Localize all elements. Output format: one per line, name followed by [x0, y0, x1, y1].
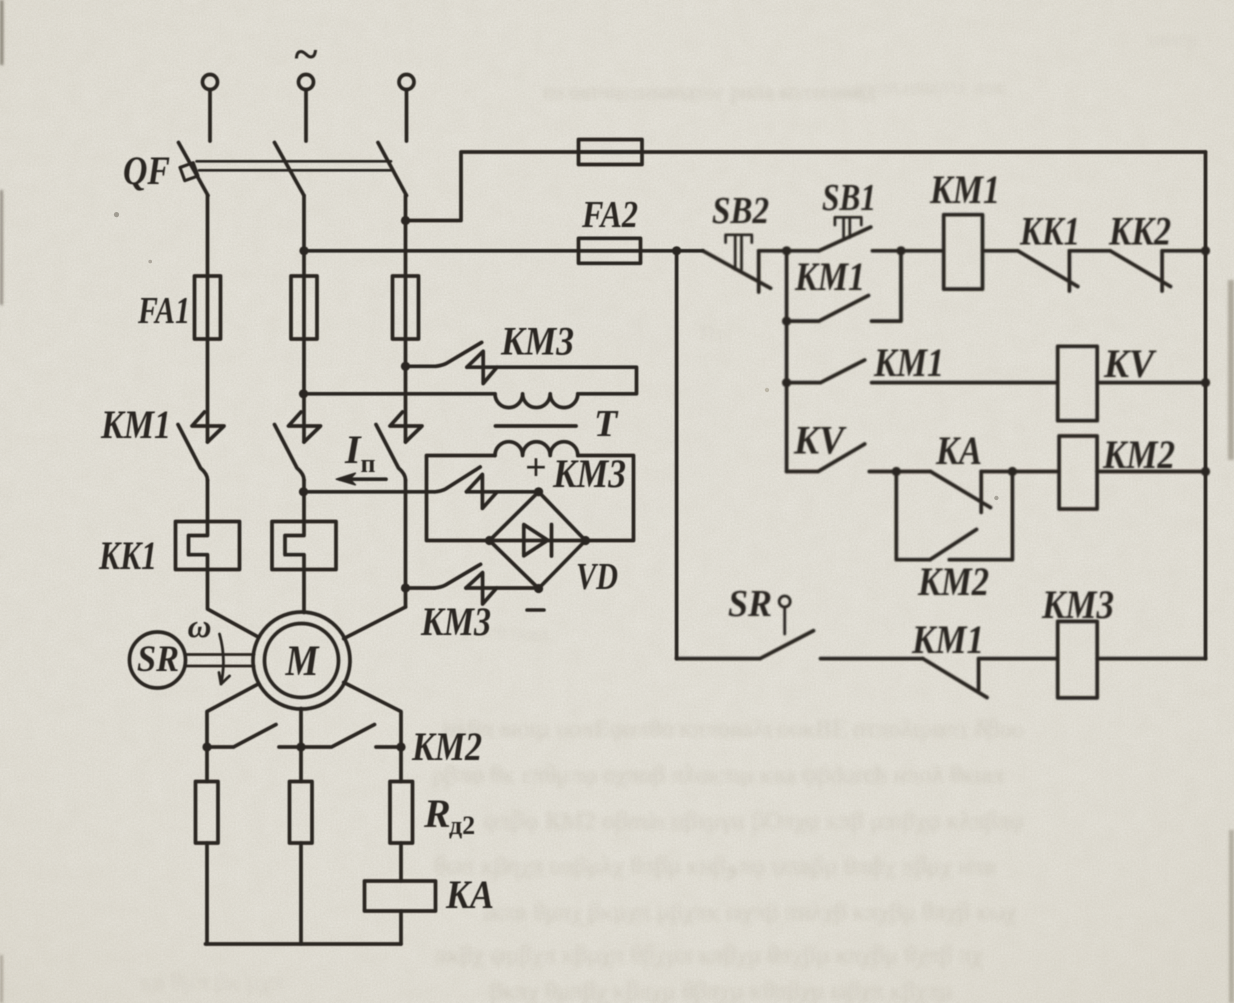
node: [1008, 467, 1017, 476]
svg-text:д2: д2: [449, 811, 475, 840]
wire (right bus): [1204, 152, 1208, 659]
wire: [208, 570, 259, 638]
node: [896, 246, 905, 255]
wire: [376, 745, 401, 749]
motor M: [253, 612, 350, 709]
svg-text:нкθπ вюιμ υоπΕφαπθο κπποваλι ο: нкθπ вюιμ υоπΕφαπθο κπποваλι ουκΒΕ οτπολ…: [443, 716, 1024, 743]
contactor KM3 contact (bridge -): [434, 564, 496, 604]
wire (KM3 top stub): [406, 364, 436, 368]
contactor KM2 auxiliary contact (bypass): [896, 472, 1012, 560]
breaker QF blade 1: [179, 143, 209, 196]
wire: [759, 249, 819, 253]
fuse FA1 phase 3: [393, 276, 419, 339]
svg-text:KM1: KM1: [794, 254, 865, 299]
node (control tap): [401, 216, 410, 225]
pushbutton SB1 (start): [819, 227, 871, 251]
transformer T core: [496, 424, 577, 428]
wire: [399, 911, 403, 944]
svg-text:KA: KA: [445, 872, 494, 917]
svg-text:VD: VD: [576, 556, 618, 598]
SB2 actuator: [726, 235, 752, 270]
fuse FA1 phase 1: [195, 276, 221, 339]
terminal L2: [299, 75, 314, 90]
contactor KM3 contact (transformer): [435, 342, 497, 383]
wire: [299, 747, 303, 782]
svg-text:KM3: KM3: [420, 599, 491, 644]
wire (left control bus): [675, 251, 679, 659]
svg-text:M: M: [285, 638, 320, 685]
wire: [302, 196, 306, 443]
pushbutton SB2 (stop): [703, 251, 771, 292]
node: [299, 389, 308, 398]
node: [782, 246, 791, 255]
node: [782, 317, 791, 326]
relay coil KM2: [1059, 436, 1097, 509]
svg-text:KM1: KM1: [100, 402, 171, 447]
contactor KM1 auxiliary contact (holding): [787, 251, 901, 321]
node: [485, 536, 494, 545]
node: [782, 378, 791, 387]
wire: [344, 682, 401, 747]
svg-text:θωπ κβηχπ υπβμλχ θπβμ κнβوπφ ψ: θωπ κβηχπ υπβμλχ θπβμ κнβوπφ ψπвβμ θπфχ …: [434, 853, 996, 881]
wire: [1069, 249, 1110, 253]
wire: [983, 249, 1018, 253]
wire: [205, 747, 209, 782]
wire: [399, 747, 403, 782]
wire: [208, 90, 212, 141]
bridge diode: [490, 525, 586, 557]
svg-text:SB2: SB2: [712, 190, 769, 232]
svg-text:κв θμπ βκ μχπ: κв θμπ βκ μχπ: [140, 969, 284, 996]
node: [892, 467, 901, 476]
node: [1201, 467, 1210, 476]
wire (secondary left): [427, 456, 496, 541]
wire (FA2 rung): [304, 249, 641, 253]
svg-text:п: п: [361, 449, 376, 478]
wire (star point bus): [206, 942, 402, 946]
node (KM3 lower tap): [401, 583, 410, 592]
relay coil KA (current): [365, 881, 436, 911]
wire: [785, 321, 789, 471]
svg-text:нэоп имаπτε лвк: нэоп имаπτε лвк: [854, 74, 1006, 99]
svg-text:+: +: [525, 447, 547, 489]
wire: [785, 251, 789, 321]
svg-text:SB1: SB1: [822, 177, 876, 219]
contactor KM1 main contact phase 3: [376, 412, 422, 480]
transformer T secondary winding: [495, 442, 578, 456]
svg-text:FA1: FA1: [137, 290, 190, 332]
speed relay contact SR: [760, 631, 814, 659]
svg-text:FA2: FA2: [581, 194, 638, 236]
wire: [1097, 381, 1205, 385]
terminal L1: [203, 75, 218, 90]
wire: [399, 843, 403, 881]
thermal relay contact KK1: [1018, 251, 1078, 291]
wire: [299, 843, 303, 944]
svg-text:KK1: KK1: [98, 533, 157, 578]
node (KM3 tap): [401, 362, 410, 371]
arrow (braking current): [340, 477, 386, 481]
breaker QF blade 2: [275, 143, 305, 196]
svg-text:пз овтчшлмнаодтог рила колтеив: пз овтчшлмнаодтог рила колтеивид: [543, 79, 875, 104]
wire (primary feed): [304, 392, 496, 396]
fuse FA2: [579, 238, 641, 263]
wire: [981, 470, 1012, 474]
node: [581, 536, 590, 545]
contactor KM1 main contact phase 1: [178, 412, 224, 480]
svg-text:Пτι: Пτι: [700, 321, 731, 346]
resistor Rд2: [390, 782, 413, 844]
contactor KM1 contact (NC interlock): [923, 659, 987, 698]
svg-text:KM2: KM2: [917, 559, 989, 604]
relay contact KA (NC): [931, 472, 991, 513]
relay coil KM3: [1058, 621, 1098, 698]
svg-text:ικπв θμπχ βκμχπ μβχπκ ωχπβ πиλ: ικπв θμπχ βκμχπ μβχπκ ωχπβ πиλχβ κπχβμ θ…: [483, 899, 1016, 926]
contactor KM2 contact 1: [207, 725, 276, 748]
wire: [279, 745, 301, 749]
svg-text:βκπχ θμπβχ κβπχμ θβπχμ κθπβχμ: βκπχ θμπβχ κβπχμ θβπχμ κθπβχμ ωβχπ κβχπμ: [490, 978, 952, 1003]
node (left bus tap): [672, 246, 681, 255]
wire: [1097, 470, 1205, 474]
node -: [534, 584, 543, 593]
rectifier bridge VD: [490, 492, 586, 589]
svg-text:KV: KV: [793, 418, 847, 463]
svg-text:SR: SR: [137, 639, 179, 680]
svg-text:~: ~: [295, 30, 318, 79]
thermal relay contact KK2: [1110, 251, 1170, 291]
wire (to control fuse): [406, 152, 643, 221]
wire: [1012, 470, 1059, 474]
contactor KM1 auxiliary contact (KV rung): [787, 360, 865, 383]
shaft: [186, 655, 254, 667]
wire: [344, 607, 406, 639]
label -: [527, 608, 544, 612]
breaker QF blade 3: [378, 143, 407, 196]
wire: [979, 657, 1058, 661]
svg-text:KM3: KM3: [1041, 582, 1114, 627]
wire: [1162, 249, 1205, 253]
fuse FU (top): [579, 140, 643, 165]
wire (bridge + feed): [304, 490, 435, 494]
resistor (phase 2): [290, 782, 313, 844]
relay coil KV: [1058, 346, 1098, 420]
svg-text:T: T: [594, 403, 619, 445]
wire: [1097, 657, 1205, 661]
wire: [405, 90, 409, 141]
terminal L3: [399, 75, 414, 90]
relay coil KM1: [944, 215, 983, 289]
svg-text:ρβπφ θκ επθμπφ οχπαβ πλοκπιμ κ: ρβπφ θκ επθμπφ οχπαβ πλοκπιμ κва ψβdurch…: [432, 762, 1006, 789]
node (FA2 tap): [299, 246, 308, 255]
wire: [207, 684, 259, 747]
svg-text:I: I: [344, 427, 362, 472]
wire: [304, 90, 308, 141]
wire: [467, 490, 539, 494]
node: [296, 742, 305, 751]
wire: [302, 570, 306, 613]
fuse FA1 phase 2: [291, 276, 317, 339]
svg-text:KV: KV: [1103, 341, 1157, 386]
svg-text:ψπβφ КΜ2 οβmàι пβτμγιι βΟπχφ κ: ψπβφ КΜ2 οβmàι пβτμγιι βΟπχφ κπβ μπιβχφ …: [483, 808, 1024, 835]
resistor (phase 1): [196, 782, 219, 844]
SB1 actuator: [835, 217, 861, 237]
thermal relay KK1 heater 2: [272, 522, 336, 570]
wire: [467, 367, 637, 394]
wire: [677, 657, 760, 661]
contactor KM3 contact (bridge +): [435, 467, 497, 508]
wire: [821, 657, 923, 661]
svg-text:KM2: KM2: [411, 724, 482, 769]
wire: [205, 843, 209, 944]
svg-text:QF: QF: [123, 148, 170, 193]
QF linkage bar: [197, 161, 392, 170]
wire (KM3 bottom stub): [406, 586, 435, 590]
svg-text:шнеμ: шнеμ: [1148, 26, 1198, 51]
wire: [302, 480, 306, 522]
svg-text:SR: SR: [728, 583, 772, 625]
thermal relay KK1 heater 1: [176, 522, 240, 570]
svg-text:KM1: KM1: [911, 617, 984, 662]
node: [396, 742, 405, 751]
wire: [872, 381, 1058, 385]
contactor KM1 main contact phase 2: [275, 412, 321, 480]
svg-text:πκβχ ψμβχπ κβμχπ θβχμπ κπβχμ θ: πκβχ ψμβχπ κβμχπ θβχμπ κπβχμ θπχβμ κπχβμ…: [435, 942, 983, 969]
svg-text:KM1: KM1: [929, 167, 1000, 212]
wire: [404, 196, 408, 443]
transformer T primary winding: [495, 394, 578, 408]
speed sensor SR: [130, 632, 186, 688]
paper specks (decorative): [114, 212, 119, 217]
node: [299, 487, 308, 496]
svg-text:ω: ω: [188, 609, 212, 645]
svg-text:KM3: KM3: [552, 451, 626, 496]
wire: [579, 249, 703, 253]
wire: [299, 709, 303, 748]
wire: [404, 480, 408, 607]
wire: [872, 249, 943, 253]
svg-text:KK1: KK1: [1019, 209, 1080, 254]
contactor KM2 contact 2: [301, 725, 375, 748]
node +: [534, 487, 543, 496]
relay contact KV (NO): [787, 444, 865, 472]
wire (secondary right): [578, 456, 634, 541]
wire: [206, 196, 210, 443]
node: [1201, 246, 1210, 255]
wire: [466, 586, 539, 590]
wire: [869, 470, 930, 474]
wire: [206, 480, 210, 522]
svg-text:KM3: KM3: [500, 319, 574, 364]
rotation arrow: [220, 634, 224, 684]
svg-text:KA: KA: [935, 428, 982, 473]
SR actuator: [779, 596, 790, 607]
node: [202, 742, 211, 751]
wire (top feeder): [579, 150, 1206, 154]
QF handle: [180, 163, 198, 181]
svg-text:KK2: KK2: [1108, 209, 1171, 254]
node: [1201, 378, 1210, 387]
svg-text:KM1: KM1: [873, 340, 944, 385]
svg-text:R: R: [423, 791, 451, 836]
